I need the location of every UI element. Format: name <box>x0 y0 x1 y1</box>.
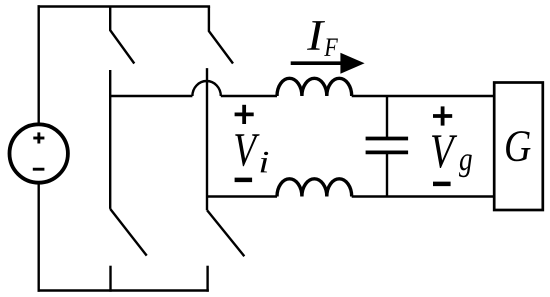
wire bridge right output <box>207 195 277 197</box>
wire source top lead <box>38 5 40 125</box>
wire top to load <box>352 95 494 97</box>
wire source bottom lead <box>38 182 40 292</box>
Vi plus sign <box>235 105 254 124</box>
label Vi <box>235 134 268 172</box>
wire crossover hop <box>192 81 220 96</box>
wire bottom to load <box>352 195 494 197</box>
label Vg <box>432 135 472 177</box>
label IF current <box>307 21 338 56</box>
voltage source plus sign <box>33 132 44 143</box>
voltage source V1 circle <box>10 124 68 182</box>
switch S4 bottom-right <box>207 210 244 292</box>
Vg minus sign <box>433 182 451 187</box>
arrow IF shaft <box>291 61 344 65</box>
switch S1 top-left <box>110 7 134 64</box>
wire bridge left output <box>110 95 192 97</box>
wire hop to inductor <box>221 95 277 97</box>
wire left leg <box>109 70 111 209</box>
switch S3 bottom-left <box>110 209 147 292</box>
Vi minus sign <box>235 178 253 183</box>
label G load <box>506 131 530 161</box>
load box G <box>494 83 543 211</box>
switch S2 top-right <box>209 7 233 64</box>
capacitor C plates <box>366 139 409 153</box>
arrow IF head <box>340 53 364 74</box>
wire top rail <box>38 5 211 7</box>
capacitor C bottom lead <box>386 152 388 196</box>
wire right leg <box>206 68 208 210</box>
Vg plus sign <box>433 106 452 125</box>
inductor L1 top <box>277 78 352 96</box>
inductor L2 bottom <box>277 179 352 197</box>
capacitor C top lead <box>386 96 388 139</box>
wire bottom rail <box>38 289 209 291</box>
voltage source minus sign <box>33 168 45 171</box>
